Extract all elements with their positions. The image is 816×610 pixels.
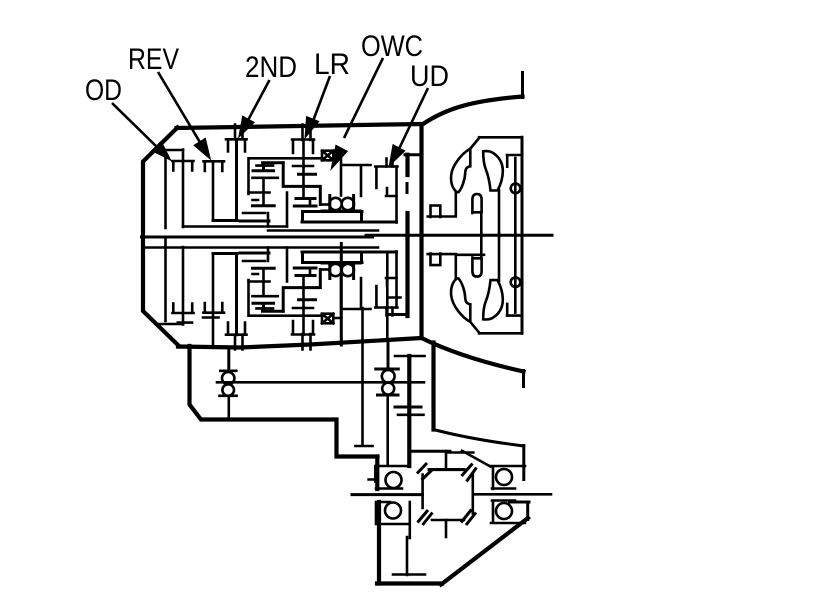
diff bearing TR: [491, 466, 525, 489]
diff bearing BR: [491, 501, 525, 524]
tc shell right wall: [521, 137, 524, 237]
axle centerline left: [352, 493, 423, 496]
diff left wall piece: [375, 457, 379, 490]
tc stator bracket: [431, 206, 441, 218]
tc blade left: [451, 150, 470, 193]
UD drum bottom bar: [388, 313, 408, 316]
diff inner stub: [408, 502, 411, 538]
diff top diagonal: [462, 451, 491, 467]
centerline main shaft right: [366, 234, 552, 237]
leader arrows: [112, 58, 428, 167]
lower connector plate: [243, 213, 268, 227]
svg-text:OD: OD: [85, 74, 122, 107]
diff housing top curve: [434, 430, 524, 447]
diff housing right step: [510, 501, 530, 504]
UD drum cap: [387, 159, 393, 167]
diff bearing BL: [376, 502, 409, 524]
gear mesh bars: [395, 406, 421, 409]
2ND drum cap: [226, 139, 247, 151]
final drive shaft: [407, 356, 411, 466]
torque converter mirrored bottom half: [428, 234, 522, 334]
bell housing bottom right stub: [522, 371, 525, 387]
output hub bars: [302, 212, 397, 223]
diff bottom stub: [445, 520, 448, 537]
UD drum wall upper segments: [405, 155, 409, 237]
inner case wall left: [164, 153, 167, 228]
tc blade right: [483, 151, 503, 190]
UD drum top bar (top half): [405, 153, 422, 156]
gearbox internals mirrored bottom half: [159, 246, 398, 350]
LR drum stem: [302, 140, 305, 168]
tc base line: [428, 192, 456, 217]
OWC link line: [334, 156, 342, 196]
bell housing bottom curve: [422, 338, 524, 372]
arrow OWC: [344, 58, 383, 138]
lower step outline: [190, 346, 378, 457]
arrow LR: [313, 76, 330, 121]
case left chamfer+wall: [143, 128, 179, 347]
OWC rollers: [329, 198, 341, 210]
diff carrier top bar: [429, 468, 464, 471]
svg-text:2ND: 2ND: [245, 51, 297, 84]
arrow 2ND: [246, 80, 270, 124]
LR drum cap: [292, 140, 314, 154]
arrow REV: [158, 72, 204, 149]
REV clutch drum: [204, 161, 225, 171]
UD drum stem: [386, 188, 397, 196]
GEARBOX INTERNALS top half (mirrored below): [159, 125, 398, 229]
lower carrier line: [146, 246, 378, 249]
diff housing right lower wall: [526, 502, 529, 520]
diff housing bottom diagonal: [441, 518, 528, 585]
OD clutch drum: [173, 161, 194, 171]
diff pinion chevrons: [417, 463, 477, 525]
carrier bar: [213, 219, 237, 222]
svg-text:UD: UD: [410, 60, 449, 93]
upper hub line: [268, 229, 378, 232]
transfer driven bearing: [376, 368, 399, 371]
upper carrier line: [183, 225, 287, 228]
lower extension wall: [431, 343, 435, 430]
2ND clutch pack: [253, 163, 283, 171]
ud hub lower link: [387, 252, 400, 340]
UD spline mark: [406, 184, 409, 193]
UD drum wall lower: [405, 237, 409, 316]
svg-text:OWC: OWC: [361, 30, 423, 63]
diff carrier square: [423, 469, 473, 520]
UD drum wall: [395, 167, 398, 223]
tc turbine hub arch: [472, 194, 481, 213]
LR drum hanger: [303, 125, 311, 141]
tc flexplate bracket: [507, 155, 522, 167]
transfer axis line: [217, 381, 424, 384]
tc bolt circle: [511, 184, 521, 194]
tc lower base line extension: [456, 254, 484, 257]
transfer idler bearing: [220, 369, 236, 372]
diff top line: [448, 451, 473, 454]
LR clutch pack: [293, 165, 313, 168]
diff housing bottom edge: [377, 581, 442, 585]
rev hub lower stem: [178, 315, 219, 347]
diff housing right upper wall: [522, 446, 525, 480]
tc hub stem: [480, 212, 483, 237]
inner case wall left lower joint: [164, 237, 167, 248]
inner ledge: [159, 149, 184, 152]
case top edge: [177, 124, 422, 128]
diff top stub: [445, 451, 448, 469]
diff housing left lower wall: [377, 502, 381, 584]
2ND drum stem: [235, 139, 238, 219]
tc flexplate shaft: [514, 158, 517, 237]
bell housing top right stub: [521, 73, 524, 98]
OWC roller race cup: [322, 196, 360, 212]
svg-text:REV: REV: [128, 43, 179, 76]
final drive top bar: [395, 355, 425, 358]
axle centerline right: [473, 493, 551, 496]
diff bearing TL: [369, 466, 409, 489]
transfer driven stem: [387, 340, 390, 369]
CASE OUTLINE: [143, 73, 529, 585]
owc reaction stem lower: [340, 244, 343, 346]
bell housing top curve: [422, 97, 523, 126]
OWC sprag box: [322, 151, 333, 161]
LABELS: [85, 30, 449, 107]
tc shell top: [470, 137, 522, 149]
case right wall: [419, 125, 423, 339]
transfer idler stem top: [227, 348, 230, 371]
arrow OD: [112, 103, 160, 150]
centerline main shaft left: [142, 236, 373, 239]
ring gear axis mark: [393, 537, 425, 575]
input hub T: [344, 165, 371, 196]
tc turbine output: [498, 190, 501, 237]
line to OWC box: [249, 158, 323, 194]
output shaft axis: [356, 308, 373, 446]
diff top flange bar: [410, 450, 450, 453]
case bottom edge: [178, 338, 422, 348]
svg-text:LR: LR: [314, 48, 350, 81]
LOWER DRIVETRAIN: [166, 237, 552, 575]
arrow UD: [398, 88, 428, 151]
mid wall: [283, 163, 320, 205]
2ND drum tab: [235, 125, 243, 140]
